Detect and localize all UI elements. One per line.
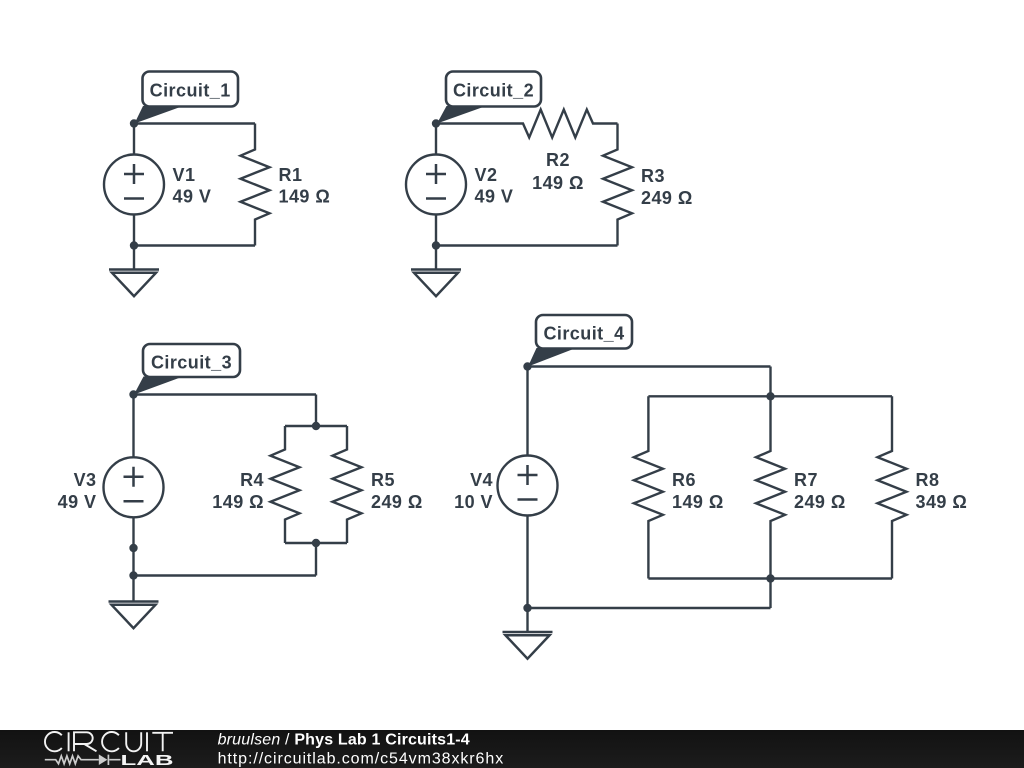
resistor R1: [241, 124, 270, 246]
node C4 top junction: [523, 362, 531, 370]
wire C4 bottom right drop: [769, 579, 771, 609]
node C1 top junction: [130, 119, 138, 127]
svg-text:149 Ω: 149 Ω: [672, 492, 724, 512]
label Circuit_3 callout: [134, 344, 240, 395]
svg-text:V1: V1: [173, 165, 196, 185]
node C3 bottom junction: [129, 571, 137, 579]
svg-text:R8: R8: [916, 470, 940, 490]
svg-text:R2: R2: [546, 150, 570, 170]
svg-text:10 V: 10 V: [454, 492, 493, 512]
svg-text:49 V: 49 V: [58, 492, 97, 512]
node C3 rail top junction: [312, 422, 320, 430]
node C2 bottom junction: [432, 241, 440, 249]
label Circuit_4 callout: [528, 315, 632, 367]
voltage source V4: [498, 367, 558, 609]
voltage source V1: [104, 124, 164, 246]
node C2 top junction: [432, 119, 440, 127]
wire C3 parallel top rail: [285, 425, 347, 427]
wire C4 parallel top rail: [648, 395, 892, 397]
svg-text:149 Ω: 149 Ω: [532, 173, 584, 193]
svg-text:bruulsen / Phys Lab 1 Circuits: bruulsen / Phys Lab 1 Circuits1-4: [218, 732, 470, 749]
svg-text:49 V: 49 V: [475, 187, 514, 207]
footer bar: [0, 730, 1024, 768]
node C4 bottom junction: [523, 604, 531, 612]
wire C1 bottom: [134, 244, 255, 246]
svg-text:R4: R4: [240, 470, 264, 490]
svg-text:49 V: 49 V: [173, 187, 212, 207]
CircuitLab logo: [45, 732, 174, 768]
voltage source V2: [406, 124, 466, 246]
node C4 rail top junction: [766, 392, 774, 400]
wire C4 parallel bottom rail: [648, 577, 892, 579]
ground C4: [503, 608, 553, 659]
svg-text:http://circuitlab.com/c54vm38x: http://circuitlab.com/c54vm38xkr6hx: [218, 751, 505, 768]
node C3 rail bottom junction: [312, 539, 320, 547]
svg-text:Circuit_2: Circuit_2: [453, 81, 534, 101]
svg-text:V3: V3: [74, 470, 97, 490]
label R4 149 ohm: [212, 470, 264, 512]
svg-text:Circuit_3: Circuit_3: [151, 353, 232, 373]
wire C3 top right drop: [315, 395, 317, 427]
resistor R2: [500, 110, 618, 138]
label V4 10 V: [454, 470, 493, 512]
voltage source V3: [104, 395, 164, 549]
svg-text:149 Ω: 149 Ω: [212, 492, 264, 512]
wire C3 bottom right drop: [315, 543, 317, 576]
wire C4 top drop to rail: [769, 367, 771, 397]
ground C1: [109, 246, 159, 297]
svg-text:249 Ω: 249 Ω: [641, 188, 693, 208]
svg-text:R7: R7: [794, 470, 818, 490]
svg-text:V4: V4: [470, 470, 493, 490]
svg-text:349 Ω: 349 Ω: [916, 492, 968, 512]
label R1 149 ohm: [279, 165, 331, 207]
ground C2: [411, 246, 461, 297]
label V1 49 V: [173, 165, 212, 207]
wire C3 bottom: [134, 574, 317, 576]
label Circuit_2 callout: [437, 72, 541, 124]
svg-text:R3: R3: [641, 166, 665, 186]
svg-text:Circuit_4: Circuit_4: [543, 324, 624, 344]
wire C2 bottom: [436, 244, 618, 246]
resistor R8: [878, 396, 907, 578]
wire C2 top: [436, 122, 500, 124]
wire C1 top: [134, 122, 255, 124]
node C4 rail bottom junction: [766, 574, 774, 582]
label V3 49 V: [58, 470, 97, 512]
resistor R7: [756, 396, 785, 578]
svg-text:R6: R6: [672, 470, 696, 490]
svg-text:LAB: LAB: [121, 753, 175, 768]
resistor R4: [271, 426, 300, 543]
label Circuit_1 callout: [135, 72, 239, 124]
svg-text:Circuit_1: Circuit_1: [150, 81, 231, 101]
svg-text:R5: R5: [371, 470, 395, 490]
label R3 249 ohm: [641, 166, 693, 208]
resistor R6: [634, 396, 663, 578]
label R6 149 ohm: [672, 470, 724, 512]
wire C4 top: [528, 365, 771, 367]
wire C3 parallel bottom rail: [285, 542, 347, 544]
node V3 bottom terminal: [129, 544, 137, 552]
resistor R5: [333, 426, 362, 543]
svg-text:249 Ω: 249 Ω: [371, 492, 423, 512]
node C3 top junction: [129, 390, 137, 398]
resistor R3: [603, 124, 632, 246]
wire C4 bottom: [528, 607, 771, 609]
node C1 bottom junction: [130, 241, 138, 249]
wire C3 left: [132, 548, 134, 576]
svg-text:R1: R1: [279, 165, 303, 185]
label R8 349 ohm: [916, 470, 968, 512]
ground C3: [109, 576, 159, 629]
svg-text:249 Ω: 249 Ω: [794, 492, 846, 512]
svg-text:149 Ω: 149 Ω: [279, 187, 331, 207]
label R2 149 ohm: [532, 150, 584, 193]
label R5 249 ohm: [371, 470, 423, 512]
svg-text:V2: V2: [475, 165, 498, 185]
label R7 249 ohm: [794, 470, 846, 512]
label V2 49 V: [475, 165, 514, 207]
wire C3 top: [134, 393, 317, 395]
